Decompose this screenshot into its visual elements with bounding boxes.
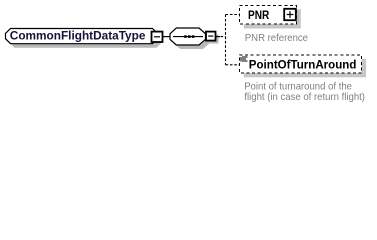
- shadow of PNR plus box: [287, 12, 299, 24]
- dashed vertical branch line: [225, 15, 227, 65]
- shadow of sequence minus box: [209, 35, 219, 44]
- sequence symbol (line with three dots): [173, 36, 203, 38]
- expand minus box on element: [152, 32, 163, 42]
- svg-text:PointOfTurnAround: PointOfTurnAround: [249, 57, 357, 71]
- wire sequence to branch (solid then dashed): [216, 36, 220, 38]
- element box CommonFlightDataType: [6, 29, 158, 44]
- svg-text:PNR: PNR: [248, 8, 270, 22]
- shadow of PointOfTurnAround box: [244, 59, 366, 77]
- svg-text:CommonFlightDataType: CommonFlightDataType: [10, 29, 146, 43]
- svg-text:PNR reference: PNR reference: [245, 32, 308, 44]
- shadow of CommonFlightDataType box: [10, 33, 162, 48]
- dashed stub to PNR: [226, 14, 240, 16]
- text-content icon on PointOfTurnAround: [240, 56, 247, 61]
- expand minus box on sequence: [206, 32, 216, 41]
- shadow of sequence octagon: [174, 32, 210, 49]
- optional element box PNR: [240, 6, 297, 25]
- expand plus box on PNR: [284, 9, 296, 20]
- sequence octagon: [170, 28, 206, 45]
- svg-text:flight (in case of return flig: flight (in case of return flight): [244, 91, 365, 103]
- dashed stub to PointOfTurnAround: [226, 64, 240, 66]
- wire element to sequence: [163, 36, 171, 38]
- shadow of PNR box: [244, 9, 301, 28]
- optional element box PointOfTurnAround: [240, 55, 362, 73]
